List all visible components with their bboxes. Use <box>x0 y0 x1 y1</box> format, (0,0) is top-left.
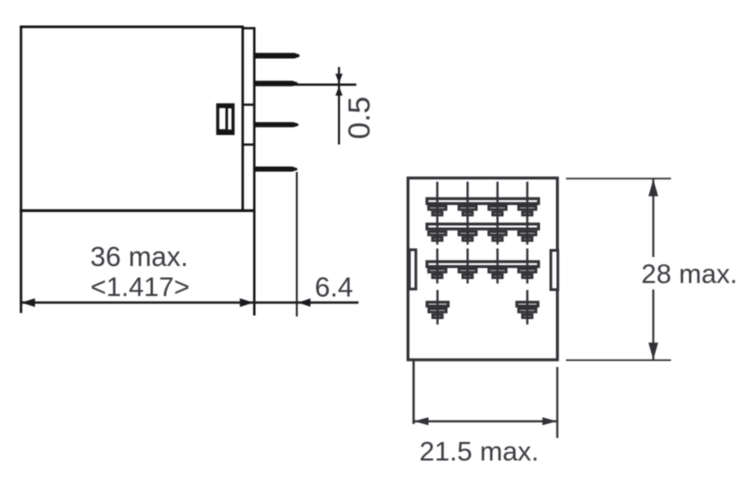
svg-text:28 max.: 28 max. <box>641 259 737 289</box>
svg-text:6.4: 6.4 <box>315 272 353 303</box>
svg-text:21.5 max.: 21.5 max. <box>419 435 538 466</box>
svg-text:36 max.: 36 max. <box>90 241 188 272</box>
svg-text:0.5: 0.5 <box>342 96 377 139</box>
svg-text:<1.417>: <1.417> <box>91 272 190 302</box>
